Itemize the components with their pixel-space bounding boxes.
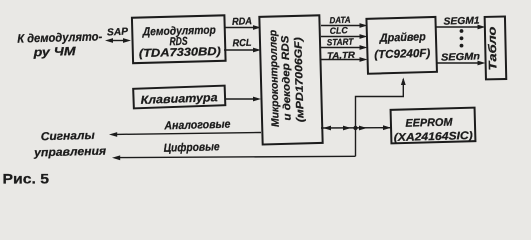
- wire: keyboard to microcontroller: [225, 97, 261, 102]
- wire RCL: [224, 38, 261, 53]
- svg-text:SEGMn: SEGMn: [441, 51, 480, 63]
- node: К демодулятору ЧМ (to FM demodulator) label: [17, 29, 103, 59]
- svg-text:RDA: RDA: [232, 16, 252, 28]
- svg-text:START: START: [327, 36, 355, 47]
- paper background: [0, 0, 531, 187]
- svg-text:Драйвер: Драйвер: [379, 31, 426, 44]
- wire: digital line up to driver (feed path): [356, 78, 406, 157]
- svg-text:SAP: SAP: [107, 26, 129, 38]
- node: junction dot on bus: [353, 126, 357, 130]
- svg-text:К демодулято-: К демодулято-: [17, 29, 102, 45]
- wire DATA: [321, 15, 368, 28]
- svg-text:Сигналы: Сигналы: [41, 130, 95, 143]
- svg-text:(TDA7330BD): (TDA7330BD): [139, 46, 221, 60]
- svg-text:SEGM1: SEGM1: [443, 15, 480, 27]
- svg-text:(XA24164SIC): (XA24164SIC): [394, 130, 474, 144]
- svg-text:CLC: CLC: [330, 25, 349, 36]
- wire: Цифровые (digital control outputs): [112, 141, 356, 160]
- block: Демодулятор RDS (TDA7330BD): [132, 15, 226, 63]
- svg-text:(TC9240F): (TC9240F): [374, 48, 430, 62]
- svg-text:DATA: DATA: [329, 15, 350, 26]
- wire CLC: [321, 25, 368, 39]
- wire SAP (bidirectional arrow): [105, 26, 131, 42]
- wire START: [321, 36, 368, 49]
- svg-text:Цифровые: Цифровые: [163, 141, 220, 154]
- svg-text:ру ЧМ: ру ЧМ: [32, 44, 77, 59]
- svg-text:Аналоговые: Аналоговые: [163, 119, 231, 133]
- wire: Аналоговые (analog control outputs): [109, 119, 261, 137]
- svg-text:и декодер RDS: и декодер RDS: [279, 35, 293, 120]
- svg-text:Табло: Табло: [487, 26, 500, 71]
- block: EEPROM (XA24164SIC): [391, 108, 476, 144]
- block: Драйвер (TC9240F): [366, 17, 437, 74]
- block: Микроконтроллер и декодер RDS (мPD17006GF): [259, 15, 322, 144]
- svg-text:EEPROM: EEPROM: [405, 116, 453, 129]
- wire SEGM1: [437, 15, 486, 29]
- wire: bus microcontroller - EEPROM: [321, 125, 391, 130]
- node: ellipsis dots between SEGM lines: [460, 29, 464, 47]
- wire RDA: [225, 16, 261, 30]
- block: Табло (display): [485, 16, 507, 79]
- block: Клавиатура (keyboard): [133, 86, 225, 109]
- svg-text:управления: управления: [33, 146, 107, 160]
- svg-text:RCL: RCL: [232, 38, 251, 50]
- wire TA,TR: [321, 50, 368, 62]
- svg-text:Рис. 5: Рис. 5: [3, 171, 50, 187]
- wire SEGMn: [437, 51, 486, 65]
- node: Сигналы управления (control signals) label: [33, 130, 107, 160]
- svg-text:(мPD17006GF): (мPD17006GF): [292, 37, 306, 123]
